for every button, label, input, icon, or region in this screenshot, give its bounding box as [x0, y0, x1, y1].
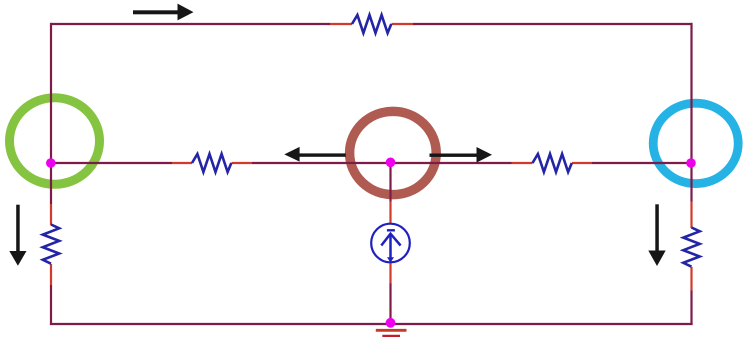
mesh loop indicator I3 (cyan circle)	[653, 103, 738, 183]
annotation arrow middle-right (points right)	[430, 147, 493, 163]
node dot A (left junction)	[46, 158, 56, 168]
wire middle-left segment	[51, 162, 172, 164]
wire left vertical upper	[50, 23, 52, 204]
current source IS circle	[371, 224, 410, 263]
wire center vertical upper	[389, 163, 391, 202]
resistor R4 leads (left branch)	[50, 204, 52, 285]
annotation arrow left-down	[9, 205, 26, 266]
resistor R5 zigzag (right branch)	[683, 228, 699, 267]
wire top-right segment	[413, 23, 693, 25]
current source IS bottom triangle	[387, 257, 394, 262]
resistor R2 zigzag (middle-left)	[192, 154, 231, 172]
ground bar 1	[376, 329, 407, 332]
node dot C (right junction)	[686, 158, 696, 168]
node dot B (center junction)	[386, 158, 396, 168]
wire right vertical upper	[690, 23, 692, 202]
wire center vertical lower	[389, 283, 391, 324]
resistor R1 zigzag (top)	[352, 15, 391, 33]
wire left vertical lower	[50, 285, 52, 325]
annotation arrow top (current direction, right)	[133, 4, 194, 21]
annotation arrow right-down	[648, 204, 665, 266]
resistor R3 zigzag (middle-right)	[533, 154, 572, 172]
annotation arrow middle-left (points left)	[284, 147, 346, 162]
mesh loop indicator I2 (brown circle)	[350, 111, 437, 194]
resistor R1 leads (top)	[330, 23, 413, 25]
resistor R3 leads (middle-right)	[512, 162, 593, 164]
node dot D (bottom junction)	[386, 318, 396, 328]
current source IS leads	[389, 201, 391, 284]
wire bottom segment	[50, 323, 693, 325]
current source IS arrow barbs	[381, 234, 400, 246]
mesh loop indicator I1 (green circle)	[10, 98, 100, 185]
current source IS minus mark	[387, 229, 395, 231]
wire top-left segment	[51, 23, 330, 25]
wire middle-center segment	[252, 162, 512, 164]
current source IS arrow shaft	[389, 235, 392, 258]
resistor R4 zigzag (left branch)	[43, 225, 59, 264]
ground bar 2	[382, 335, 400, 337]
resistor R5 leads (right branch)	[690, 202, 692, 291]
resistor R2 leads (middle-left)	[172, 162, 252, 164]
wire right vertical lower	[690, 291, 692, 326]
wire middle-right segment	[592, 162, 693, 164]
